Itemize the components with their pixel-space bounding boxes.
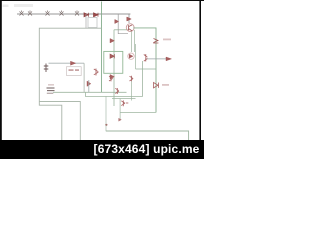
diode D4 on top rail [60,11,64,16]
wire: bottom horizontal to right drop [106,131,189,140]
label in U2 [69,69,74,71]
wire: vertical into bottom cluster [119,99,121,121]
diode D13 right of small box [129,54,133,58]
wire: horizontal net y92 [53,91,127,93]
transistor Q2 stack mark c [110,75,114,79]
diode D3 on top rail [46,11,50,16]
transistor Q3 pair [109,76,113,82]
wire: vertical right of small box [135,44,137,69]
wire: collector lines down from Q1 [132,30,135,52]
wire: stub from rail to box R2 [85,14,87,28]
wire: big loop rectangle [39,28,101,140]
wire: mid-left horizontal [49,62,85,64]
wire: long teal vertical net V1 [101,2,103,93]
wire: output horizontal [145,58,167,60]
wire: Q4 emitter down [131,81,133,100]
wire: lower horizontal net y96.4 [85,61,142,96]
diode D10 above transistor [128,14,130,23]
diode D1 on top rail [20,11,24,16]
label for D11 [163,39,171,41]
diode D5 on top rail [75,11,79,16]
wire: vertical into y92 [88,80,90,92]
transistor Q2 stack mark a [110,39,114,43]
wire: middle vertical net [113,30,115,106]
diode D9 on upper-middle vertical [115,20,119,24]
wire: teal jog at y29.8 [114,29,129,31]
wire: inner bottom edge to second drop [39,102,80,141]
diode D7 [94,13,99,17]
frame top border [0,0,204,1]
diode D8 arrow [71,61,76,65]
component box U2 [67,67,82,76]
capacitor C2 third plate [47,92,54,94]
wire: Q1 emitter to right net [133,28,156,113]
transistor Q1 circle [126,24,134,32]
label for D12 [162,84,169,86]
transistor Q7 marks [144,54,148,62]
wire: y69 link to right net [136,68,157,70]
caption bar [0,140,204,159]
transistor Q1 internals [129,25,133,31]
transistor Q4 pair [130,76,134,82]
arrow head A1 [166,57,172,61]
resistor box R2 [88,18,97,28]
small box U3 [104,51,123,73]
wire: junction drop [105,96,107,131]
wire: link y33.7 [118,14,128,34]
transistor Q5 marks [94,69,99,76]
label for C2 [48,84,54,86]
frame right border [199,0,201,141]
transistor Q8 marks [115,88,119,94]
faint title text top-left [3,5,9,8]
transistor Q9 bottom cluster [121,100,128,106]
transistor Q2 stack mark b [110,54,115,58]
diode D2 on top rail [28,11,32,16]
frame left border [0,0,2,141]
wire: link y98.5 [112,98,136,100]
diode D11 on right net [153,39,158,44]
transistor Q10 faint circle [128,53,134,59]
junction node J1 [105,124,107,126]
diode D14 bottom of x120 [119,118,122,121]
component D12 on right net lower [154,83,159,88]
capacitor C2 (polarized) [47,88,55,91]
transistor Q6 arrow [87,81,91,86]
capacitor C1 left [44,64,49,73]
wire: vertical from mid-left wire [83,63,85,92]
wire: mid-low horizontal y112.5 [120,111,156,113]
diode D6 [84,13,89,17]
wire: top supply rail [17,13,130,15]
